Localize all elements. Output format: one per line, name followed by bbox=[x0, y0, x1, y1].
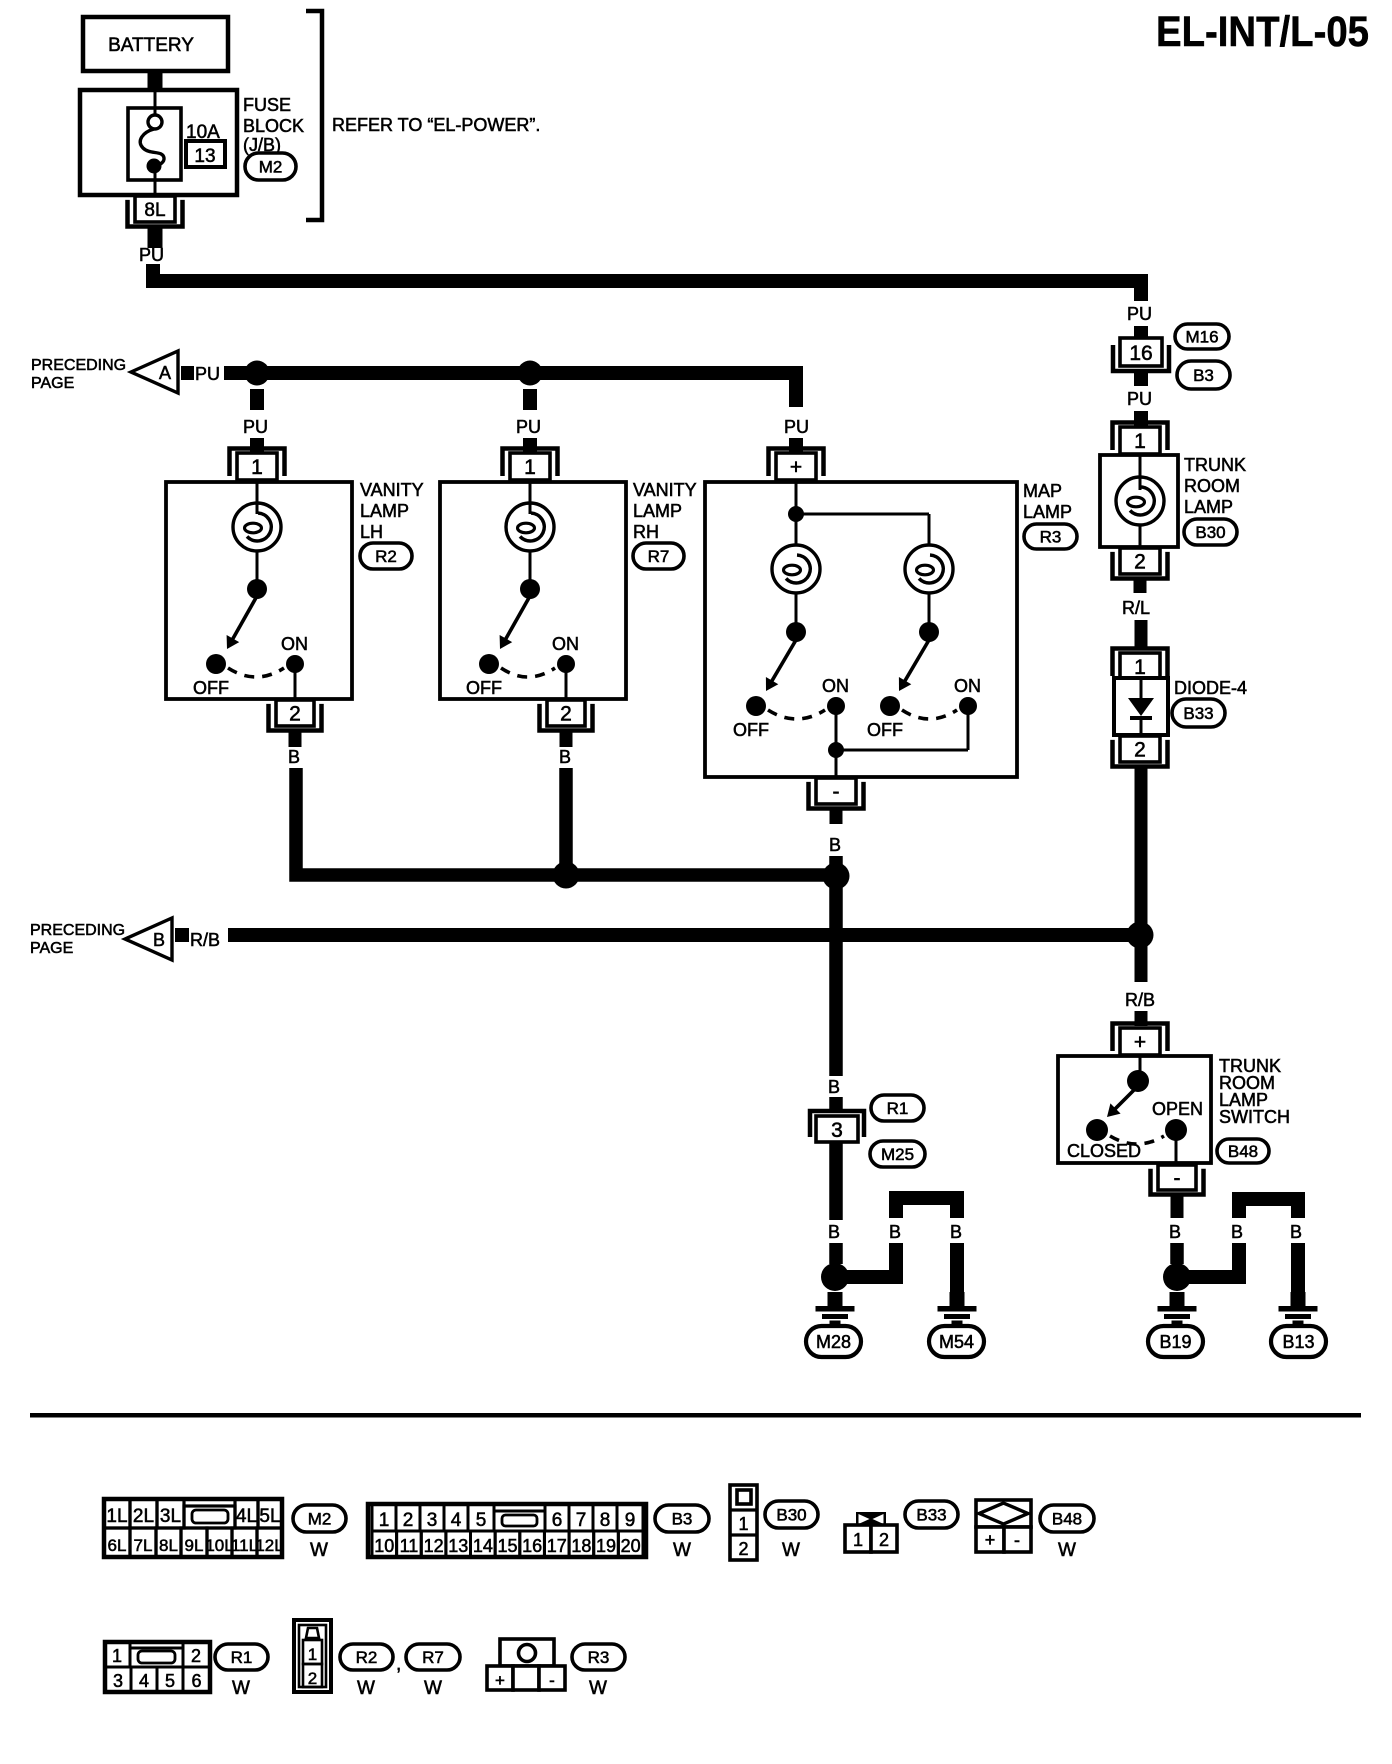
svg-text:PAGE: PAGE bbox=[31, 375, 74, 392]
bulb map lamp left bbox=[772, 545, 820, 593]
svg-text:B30: B30 bbox=[1195, 523, 1225, 542]
separator line bbox=[30, 1413, 1361, 1418]
svg-text:9: 9 bbox=[625, 1510, 636, 1531]
svg-text:R1: R1 bbox=[231, 1648, 253, 1667]
svg-text:1: 1 bbox=[738, 1514, 748, 1534]
svg-text:TRUNK: TRUNK bbox=[1184, 455, 1246, 475]
connector pin - trunk room lamp switch bbox=[1151, 1165, 1204, 1195]
svg-text:R2: R2 bbox=[375, 547, 397, 566]
main feed wire PU bbox=[153, 264, 1141, 301]
svg-text:M28: M28 bbox=[816, 1332, 851, 1352]
svg-text:R2: R2 bbox=[356, 1648, 378, 1667]
fuse 10A bbox=[128, 90, 181, 196]
legend label B48 bbox=[1040, 1505, 1094, 1532]
svg-text:DIODE-4: DIODE-4 bbox=[1174, 678, 1247, 698]
svg-text:B: B bbox=[829, 835, 841, 855]
svg-text:PU: PU bbox=[1127, 304, 1152, 324]
junction vanity LH feed bbox=[245, 361, 270, 386]
svg-text:2: 2 bbox=[1134, 551, 1146, 574]
wire PU bus to map lamp bbox=[257, 373, 796, 407]
svg-text:R1: R1 bbox=[887, 1099, 909, 1118]
svg-text:RH: RH bbox=[633, 522, 659, 542]
svg-text:FUSE: FUSE bbox=[243, 95, 291, 115]
svg-text:2: 2 bbox=[560, 703, 572, 726]
junction B vanity RH bbox=[553, 862, 580, 889]
connector label R1 bbox=[871, 1095, 924, 1121]
legend label B30 bbox=[765, 1501, 818, 1528]
junction vanity RH feed bbox=[518, 361, 543, 386]
trunk room lamp B30 bbox=[1100, 455, 1178, 547]
wire R/L to diode bbox=[1135, 620, 1148, 650]
wire B to ground junction bbox=[829, 1243, 843, 1264]
svg-text:ON: ON bbox=[552, 634, 579, 654]
bulb vanity lamp LH bbox=[233, 503, 281, 551]
svg-text:6: 6 bbox=[191, 1671, 201, 1691]
node map lamp branch bbox=[788, 506, 804, 522]
svg-text:B30: B30 bbox=[776, 1506, 806, 1525]
svg-text:B33: B33 bbox=[916, 1506, 946, 1525]
wire stub B below switch bbox=[1171, 1195, 1184, 1218]
legend connector R1 pinout bbox=[105, 1642, 210, 1692]
svg-text:LAMP: LAMP bbox=[1023, 502, 1072, 522]
svg-text:6: 6 bbox=[552, 1510, 563, 1531]
svg-text:B: B bbox=[1290, 1222, 1302, 1242]
svg-text:VANITY: VANITY bbox=[633, 480, 697, 500]
connector label B30 bbox=[1184, 519, 1237, 545]
svg-text:18: 18 bbox=[571, 1536, 591, 1556]
map lamp box bbox=[705, 482, 1017, 777]
switch map lamp right bbox=[919, 622, 939, 642]
svg-text:15: 15 bbox=[497, 1536, 517, 1556]
wire B to ground junction B19 bbox=[1170, 1243, 1184, 1264]
connector pin + trunk room lamp switch bbox=[1113, 1024, 1168, 1056]
svg-text:CLOSED: CLOSED bbox=[1067, 1141, 1141, 1161]
svg-text:2: 2 bbox=[879, 1530, 889, 1550]
svg-text:W: W bbox=[589, 1678, 607, 1699]
diode-4 B33 bbox=[1114, 678, 1168, 735]
legend connector M2 pinout bbox=[104, 1499, 284, 1557]
junction B map lamp bbox=[823, 863, 850, 890]
wire branch to ground M54 bbox=[842, 1191, 964, 1292]
svg-text:M25: M25 bbox=[881, 1145, 914, 1164]
legend label M2 bbox=[293, 1505, 346, 1532]
svg-text:10L: 10L bbox=[205, 1536, 233, 1555]
svg-text:1: 1 bbox=[112, 1646, 122, 1666]
svg-text:1L: 1L bbox=[106, 1506, 127, 1527]
svg-text:+: + bbox=[495, 1671, 505, 1690]
ground B13 bbox=[1279, 1292, 1318, 1325]
wire stub after arrow B bbox=[175, 928, 189, 942]
connector label M2 bbox=[245, 153, 296, 180]
wire R/B to trunk switch bbox=[1135, 935, 1148, 982]
svg-text:W: W bbox=[357, 1678, 375, 1699]
svg-text:A: A bbox=[159, 363, 171, 383]
svg-text:W: W bbox=[424, 1678, 442, 1699]
svg-text:B3: B3 bbox=[672, 1510, 693, 1529]
svg-text:2: 2 bbox=[1134, 739, 1146, 762]
svg-text:R7: R7 bbox=[422, 1648, 444, 1667]
svg-text:B19: B19 bbox=[1159, 1332, 1191, 1352]
svg-text:17: 17 bbox=[547, 1536, 567, 1556]
svg-text:PU: PU bbox=[195, 364, 220, 384]
switch vanity lamp LH bbox=[247, 579, 267, 599]
legend connector R3 pinout bbox=[487, 1639, 565, 1690]
svg-text:5: 5 bbox=[476, 1510, 487, 1531]
svg-text:12: 12 bbox=[424, 1536, 444, 1556]
svg-text:11L: 11L bbox=[231, 1536, 258, 1555]
wire B merge from vanity LH bbox=[296, 768, 835, 875]
svg-text:LH: LH bbox=[360, 522, 383, 542]
connector label R3 bbox=[1024, 524, 1077, 549]
svg-text:14: 14 bbox=[473, 1536, 493, 1556]
connector label B3 bbox=[1177, 361, 1230, 389]
svg-text:3L: 3L bbox=[160, 1506, 181, 1527]
svg-text:W: W bbox=[673, 1540, 691, 1561]
wire B from vanity RH bbox=[559, 768, 573, 875]
connector pin 1 vanity lamp LH bbox=[230, 449, 285, 481]
connector label B48 bbox=[1217, 1139, 1269, 1163]
svg-text:B: B bbox=[153, 930, 165, 950]
svg-text:12L: 12L bbox=[255, 1536, 283, 1555]
connector pin 1 vanity lamp RH bbox=[503, 449, 558, 481]
svg-text:13: 13 bbox=[448, 1536, 468, 1556]
junction ground B19 bbox=[1163, 1263, 1191, 1291]
svg-text:1: 1 bbox=[853, 1530, 863, 1550]
svg-text:MAP: MAP bbox=[1023, 481, 1062, 501]
wire PU into trunk room lamp bbox=[1134, 411, 1148, 426]
svg-text:B3: B3 bbox=[1193, 366, 1214, 385]
wire stub R/L above label bbox=[1134, 579, 1147, 593]
svg-text:9L: 9L bbox=[185, 1536, 204, 1555]
svg-text:LAMP: LAMP bbox=[633, 501, 682, 521]
wire stub below 8L bbox=[148, 228, 163, 248]
svg-text:19: 19 bbox=[596, 1536, 616, 1556]
svg-text:-: - bbox=[1014, 1530, 1020, 1550]
svg-text:PU: PU bbox=[243, 417, 268, 437]
legend connector R2/R7 pinout bbox=[294, 1620, 331, 1692]
svg-text:R7: R7 bbox=[648, 547, 670, 566]
svg-text:ON: ON bbox=[822, 676, 849, 696]
wire B from map lamp bbox=[829, 856, 843, 940]
svg-text:VANITY: VANITY bbox=[360, 480, 424, 500]
svg-text:LAMP: LAMP bbox=[1184, 497, 1233, 517]
svg-text:4: 4 bbox=[451, 1510, 462, 1531]
svg-text:OFF: OFF bbox=[466, 678, 502, 698]
ground label B13 bbox=[1271, 1326, 1326, 1357]
svg-text:2: 2 bbox=[191, 1646, 201, 1666]
wire R/B into switch bbox=[1135, 1011, 1148, 1026]
legend label B3 bbox=[655, 1505, 709, 1532]
svg-text:B: B bbox=[1231, 1222, 1243, 1242]
legend connector B48 pinout bbox=[976, 1500, 1031, 1552]
svg-text:W: W bbox=[232, 1678, 250, 1699]
ground label M28 bbox=[806, 1326, 861, 1357]
connector 3 R1/M25 bbox=[810, 1111, 864, 1142]
svg-text:16: 16 bbox=[1129, 342, 1152, 365]
legend label R1 bbox=[215, 1644, 268, 1670]
svg-text:2: 2 bbox=[403, 1510, 414, 1531]
svg-text:B13: B13 bbox=[1282, 1332, 1314, 1352]
svg-text:+: + bbox=[985, 1530, 996, 1550]
svg-text:3: 3 bbox=[831, 1119, 843, 1142]
svg-text:2: 2 bbox=[308, 1669, 317, 1688]
connector pin 2 vanity lamp RH bbox=[540, 700, 593, 731]
connector pin 2 diode-4 bbox=[1113, 736, 1168, 767]
svg-text:1: 1 bbox=[308, 1645, 317, 1664]
bulb vanity lamp RH bbox=[506, 503, 554, 551]
wire PU bus start bbox=[224, 366, 262, 380]
wire B crossing down to connector 3 bbox=[829, 940, 843, 1076]
svg-text:SWITCH: SWITCH bbox=[1219, 1107, 1290, 1127]
fuse number 13 bbox=[186, 141, 225, 167]
connector label B33 bbox=[1172, 699, 1225, 727]
svg-text:M54: M54 bbox=[939, 1332, 974, 1352]
ground M54 bbox=[938, 1292, 977, 1325]
svg-text:11: 11 bbox=[400, 1536, 419, 1556]
wire stub B below vanity RH bbox=[560, 731, 573, 747]
svg-text:B: B bbox=[950, 1222, 962, 1242]
svg-text:2: 2 bbox=[738, 1539, 748, 1559]
svg-text:+: + bbox=[790, 456, 802, 479]
ground label M54 bbox=[929, 1326, 984, 1357]
wire below connector 16 bbox=[1134, 373, 1148, 386]
svg-text:M16: M16 bbox=[1185, 328, 1218, 347]
wire R/B bus bbox=[228, 928, 1140, 942]
svg-text:8: 8 bbox=[600, 1510, 611, 1531]
svg-text:,: , bbox=[396, 1654, 401, 1675]
svg-text:M2: M2 bbox=[308, 1510, 332, 1529]
ground label B19 bbox=[1148, 1326, 1203, 1357]
switch map lamp left bbox=[786, 622, 806, 642]
svg-text:ROOM: ROOM bbox=[1184, 476, 1240, 496]
svg-text:ON: ON bbox=[281, 634, 308, 654]
svg-text:4: 4 bbox=[139, 1671, 149, 1691]
junction ground M28 bbox=[821, 1263, 849, 1291]
svg-text:PU: PU bbox=[784, 417, 809, 437]
connector pin 1 diode-4 bbox=[1113, 649, 1168, 681]
wire PU into vanity RH bbox=[523, 438, 537, 452]
svg-text:-: - bbox=[1174, 1167, 1181, 1190]
connector pin 2 vanity lamp LH bbox=[269, 700, 322, 731]
vanity lamp RH box bbox=[440, 482, 626, 699]
svg-text:5: 5 bbox=[165, 1671, 175, 1691]
svg-text:PU: PU bbox=[1127, 389, 1152, 409]
svg-text:B33: B33 bbox=[1183, 704, 1213, 723]
svg-text:B: B bbox=[828, 1222, 840, 1242]
svg-text:1: 1 bbox=[1134, 656, 1146, 679]
svg-text:3: 3 bbox=[427, 1510, 438, 1531]
wire stub B below vanity LH bbox=[289, 731, 302, 747]
svg-text:-: - bbox=[549, 1671, 555, 1690]
svg-text:PAGE: PAGE bbox=[30, 940, 73, 957]
svg-text:1: 1 bbox=[379, 1510, 390, 1531]
svg-text:OFF: OFF bbox=[733, 720, 769, 740]
svg-text:1: 1 bbox=[524, 456, 536, 479]
svg-text:-: - bbox=[833, 781, 840, 804]
svg-text:REFER TO “EL-POWER”.: REFER TO “EL-POWER”. bbox=[332, 115, 540, 135]
vanity lamp LH box bbox=[166, 482, 352, 699]
legend label B33 bbox=[905, 1501, 958, 1528]
svg-text:10: 10 bbox=[374, 1536, 394, 1556]
svg-text:2: 2 bbox=[289, 703, 301, 726]
svg-text:R3: R3 bbox=[1040, 528, 1062, 547]
legend label R3 bbox=[572, 1644, 625, 1670]
svg-text:W: W bbox=[1058, 1540, 1076, 1561]
wire stub after arrow A bbox=[181, 366, 194, 380]
battery bbox=[83, 17, 228, 71]
switch trunk room lamp bbox=[1127, 1070, 1149, 1092]
svg-text:B48: B48 bbox=[1228, 1142, 1258, 1161]
svg-text:R/B: R/B bbox=[190, 930, 220, 950]
svg-text:R/L: R/L bbox=[1122, 598, 1150, 618]
legend connector B30 pinout bbox=[730, 1485, 757, 1560]
svg-text:20: 20 bbox=[621, 1536, 641, 1556]
svg-text:+: + bbox=[1134, 1031, 1146, 1054]
bracket REFER TO EL-POWER bbox=[306, 11, 322, 220]
svg-text:OFF: OFF bbox=[193, 678, 229, 698]
svg-text:PRECEDING: PRECEDING bbox=[30, 922, 125, 939]
wire stub B below map lamp bbox=[830, 809, 843, 824]
connector pin 1 trunk room lamp bbox=[1113, 423, 1168, 455]
wire B below connector 3 bbox=[829, 1142, 843, 1220]
legend label R2 bbox=[340, 1644, 393, 1670]
svg-text:B: B bbox=[1169, 1222, 1181, 1242]
svg-text:7L: 7L bbox=[134, 1536, 153, 1555]
fuse block M2 bbox=[80, 90, 237, 195]
svg-text:6L: 6L bbox=[108, 1536, 127, 1555]
wire into connector 3 bbox=[829, 1097, 843, 1110]
wire PU into vanity LH bbox=[250, 438, 264, 452]
svg-text:B48: B48 bbox=[1052, 1510, 1082, 1529]
bulb trunk room lamp bbox=[1116, 477, 1164, 525]
connector 8L bbox=[128, 196, 183, 227]
wire diode to R/B junction bbox=[1135, 766, 1148, 935]
svg-text:4L: 4L bbox=[236, 1506, 257, 1527]
legend connector B3 pinout bbox=[368, 1504, 646, 1557]
wire battery to fuse block bbox=[148, 71, 163, 92]
svg-text:OFF: OFF bbox=[867, 720, 903, 740]
connector label R2 bbox=[360, 543, 412, 569]
legend connector B33 pinout bbox=[845, 1512, 897, 1552]
svg-text:3: 3 bbox=[113, 1671, 123, 1691]
switch vanity lamp RH bbox=[520, 579, 540, 599]
svg-text:EL-INT/L-05: EL-INT/L-05 bbox=[1156, 8, 1369, 56]
connector pin 2 trunk room lamp bbox=[1113, 548, 1168, 579]
svg-text:PRECEDING: PRECEDING bbox=[31, 357, 126, 374]
svg-text:1: 1 bbox=[1134, 430, 1146, 453]
wire map lamp switches to pin - bbox=[835, 714, 838, 777]
wire drop to vanity RH bbox=[523, 389, 537, 410]
svg-text:8L: 8L bbox=[144, 200, 165, 221]
legend label R7 bbox=[406, 1644, 460, 1670]
svg-text:2L: 2L bbox=[133, 1506, 154, 1527]
connector pin - map lamp bbox=[809, 778, 864, 809]
bulb map lamp right bbox=[905, 545, 953, 593]
connector 16 M16/B3 bbox=[1113, 338, 1169, 371]
svg-text:PU: PU bbox=[139, 245, 164, 265]
ground M28 bbox=[816, 1292, 855, 1325]
svg-text:B: B bbox=[828, 1077, 840, 1097]
wire branch to ground B13 bbox=[1184, 1192, 1305, 1292]
svg-text:16: 16 bbox=[522, 1536, 542, 1556]
connector pin + map lamp bbox=[769, 449, 824, 481]
svg-text:R/B: R/B bbox=[1125, 990, 1155, 1010]
junction R/B right column bbox=[1127, 922, 1154, 949]
svg-text:7: 7 bbox=[576, 1510, 587, 1531]
connector label R7 bbox=[633, 543, 684, 569]
wire PU into map lamp bbox=[789, 438, 803, 452]
wire drop to vanity LH bbox=[250, 389, 264, 410]
svg-text:1: 1 bbox=[251, 456, 263, 479]
svg-text:W: W bbox=[310, 1540, 328, 1561]
svg-text:8L: 8L bbox=[159, 1536, 178, 1555]
svg-text:BLOCK: BLOCK bbox=[243, 116, 304, 136]
connector label M25 bbox=[870, 1141, 925, 1167]
ground B19 bbox=[1158, 1292, 1197, 1325]
trunk room lamp switch B48 bbox=[1058, 1056, 1211, 1163]
svg-text:M2: M2 bbox=[259, 158, 283, 177]
svg-text:B: B bbox=[889, 1222, 901, 1242]
svg-text:LAMP: LAMP bbox=[360, 501, 409, 521]
connector label M16 bbox=[1175, 324, 1229, 349]
svg-text:B: B bbox=[559, 747, 571, 767]
svg-text:BATTERY: BATTERY bbox=[108, 35, 194, 56]
svg-text:PU: PU bbox=[516, 417, 541, 437]
svg-text:13: 13 bbox=[194, 146, 215, 167]
svg-text:5L: 5L bbox=[259, 1506, 280, 1527]
svg-text:ON: ON bbox=[954, 676, 981, 696]
svg-text:R3: R3 bbox=[588, 1648, 610, 1667]
wire PU into connector 16 bbox=[1134, 326, 1148, 340]
svg-text:B: B bbox=[288, 747, 300, 767]
svg-text:W: W bbox=[782, 1540, 800, 1561]
svg-text:OPEN: OPEN bbox=[1152, 1099, 1203, 1119]
